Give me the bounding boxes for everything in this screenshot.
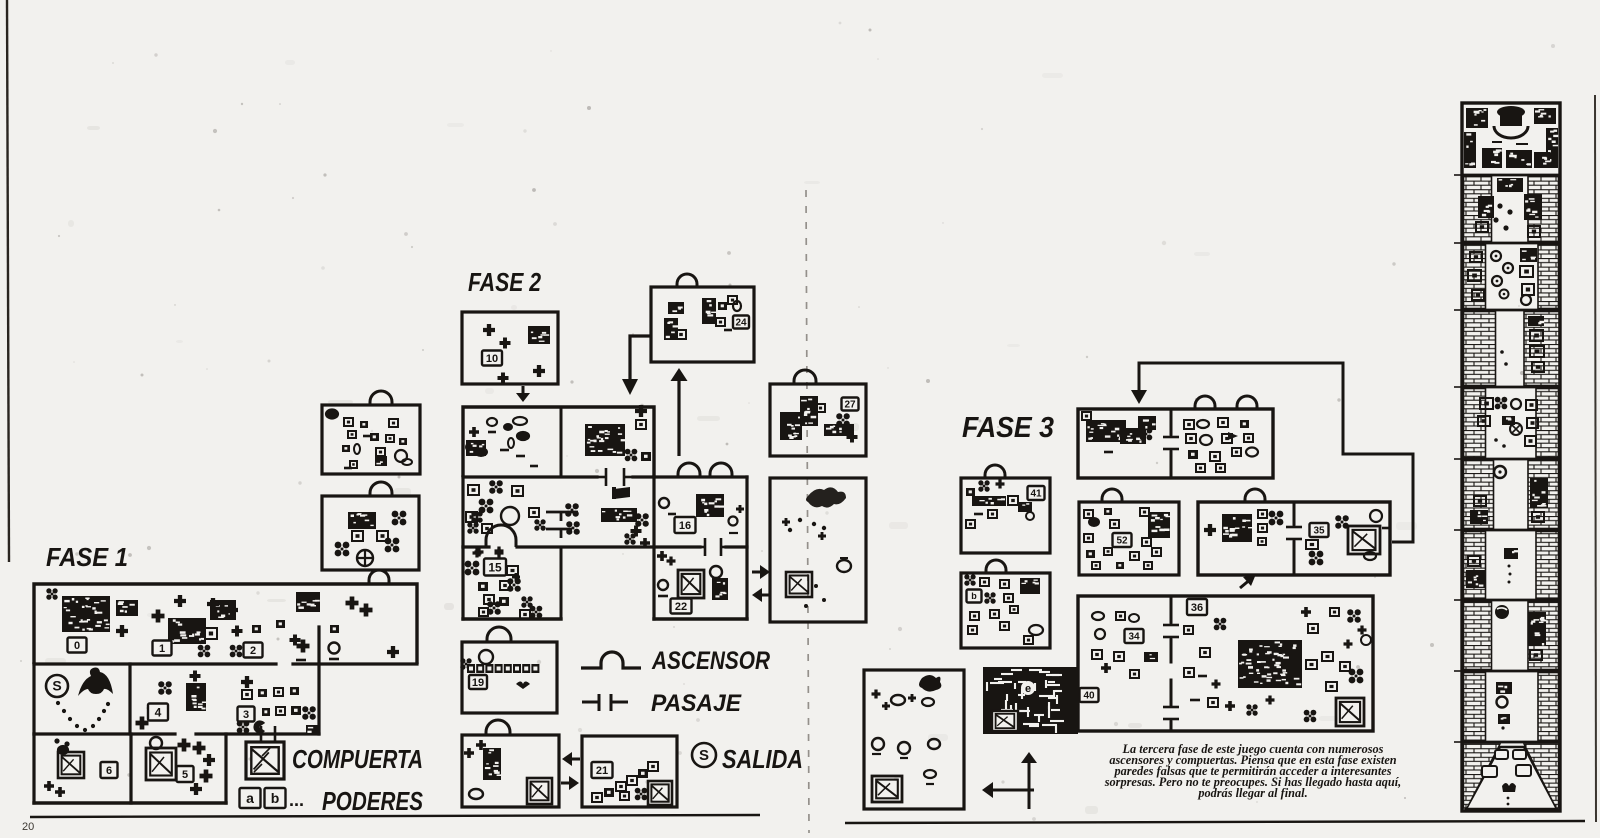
svg-text:22: 22 [675,601,687,613]
fase3 room40 label [1080,688,1099,702]
svg-text:podrás llegar al final.: podrás llegar al final. [1197,786,1307,800]
fase3 arrow up [1021,752,1037,809]
fase2 room16-22 passage marks [697,538,729,556]
fase3 room36 label [1187,599,1207,615]
fase1 row2 middle icons [158,681,172,695]
legend box a [240,788,261,808]
fase3 room 52 [1079,502,1179,575]
fase3 bottom-left room [864,670,964,809]
fase2 room22 icons [657,551,667,561]
legend compuerta icon [246,742,284,779]
tower floor10 road boxes [1495,750,1508,759]
svg-text:FASE 3: FASE 3 [962,412,1054,444]
tower floor6 bricks [1464,461,1494,529]
fase3 routing wire [1139,363,1413,542]
svg-text:a: a [246,790,254,806]
fase2 bottom band outline [461,547,464,619]
fase2 tall right room [770,478,866,622]
fase2 arrow down from room10 [516,386,530,402]
svg-text:16: 16 [679,520,691,532]
svg-text:COMPUERTA: COMPUERTA [292,744,423,774]
fase3 bottom-left icons [919,675,941,692]
svg-text:27: 27 [844,400,856,411]
fase1 room0 cluster [62,596,110,632]
legend ascensor symbol [581,652,641,668]
svg-text:21: 21 [596,765,608,777]
fase3 room36 divider with passages [1170,596,1173,622]
fase2 room16 top wall and arches [654,475,747,478]
fase3 room40 compuerta [991,710,1019,732]
fase2 top band right icons [585,424,626,456]
fase1 top room middle icons [152,610,165,623]
fase3 room36 right icons [1184,626,1193,634]
fase2 arrows to right room [752,565,770,579]
fase2 arrows between 21 rooms [562,752,580,766]
svg-text:e: e [1025,683,1031,695]
fase1 interior wall x319 [317,627,320,734]
fase1 row2 right icon rows [241,676,253,688]
tower floor4 bricks [1464,312,1496,386]
fase1 room0 label 0 [68,638,87,653]
svg-text:34: 34 [1128,632,1140,643]
svg-text:2: 2 [250,645,256,657]
svg-text:20: 20 [22,821,34,833]
fase2 room21R icons [592,762,613,778]
tower floor2 icons [1497,178,1523,192]
fase1 top room outline [34,584,417,664]
tower floor7 icons [1468,556,1480,566]
fase2 inner arch room [486,525,516,547]
fase3 top room left icons [1086,420,1126,442]
fase2 middle band bottom wall [463,545,489,548]
fase2 room15 icons [484,559,506,576]
tower floor10 side bricks [1464,744,1501,808]
fase1 ascensor arch on top room [369,570,389,583]
fase2 tall room icons [806,487,846,507]
fase3 room 41 [961,478,1050,553]
fase1 room5 icons [150,737,162,749]
fase3 top room arches [1195,396,1215,409]
fase1 room6 icons [54,738,69,746]
svg-text:S: S [52,678,61,694]
fase2 middle band passage marks [546,512,578,538]
fase3 big room 36 [1078,596,1373,731]
svg-text:6: 6 [106,765,112,777]
tower floor6 icons [1494,466,1506,478]
tower floor2 bricks [1464,177,1492,242]
fase2 top band divider [560,407,563,477]
tower floor10 perspective road [1466,747,1557,809]
fase3 arrow up at room35 bottom [1240,578,1252,588]
svg-text:0: 0 [74,640,80,652]
fase3 power room icons [964,574,975,585]
svg-text:36: 36 [1191,602,1203,614]
fase3 wire arrowhead into top room [1131,390,1147,404]
fase2 left column room A [322,405,420,474]
svg-text:15: 15 [488,560,502,574]
fase3 room35 right icons [1310,523,1329,537]
fase2 room 19 [462,642,557,713]
svg-text:FASE 2: FASE 2 [468,267,541,297]
legend pasaje symbol [582,694,628,711]
fase2 middle left room icons [468,485,479,495]
svg-text:5: 5 [182,769,188,781]
tower floor10 crown [1502,783,1516,792]
fase3 top double room [1078,409,1273,478]
fase1 top room bottom wall with door gap [34,662,276,665]
tower floor lines [1462,174,1560,177]
fase1 row2 left wall [32,664,35,734]
page left border line [7,0,9,562]
tower floor3 bricks [1464,245,1486,309]
tower floor4 icons [1530,330,1543,341]
fase2 top band left icons [466,443,474,451]
svg-text:b: b [971,591,977,601]
svg-text:35: 35 [1313,526,1325,537]
fase2 room 21 right [582,736,677,807]
fase3 room40 circle e [1021,681,1035,695]
fase3 arrow left [982,782,1034,798]
fase2 room16/22 right wall [652,477,655,619]
fase1 row2 passage marks [253,726,283,742]
tower floor5 bricks [1464,389,1486,458]
svg-text:SALIDA: SALIDA [722,744,803,774]
fase3 power room [961,573,1050,648]
svg-text:10: 10 [486,353,498,365]
tower floor9 bricks [1464,673,1486,741]
bottom rule left [30,815,760,817]
bottom rule right [845,821,1585,823]
fase3 top room right icons [1184,420,1194,429]
fase2 top band bottom wall with passages [463,475,597,478]
fase2 room19 icons [479,650,493,664]
svg-text:1: 1 [159,643,165,655]
tower floor7 bricks [1464,532,1486,599]
fase1 row3 outline [32,734,35,803]
svg-text:40: 40 [1083,691,1095,702]
fase2 central block outline [463,407,654,477]
fase2 room16 icons [659,498,669,508]
tower floor9 icons [1496,682,1512,694]
tower floor3 eyes [1491,251,1501,261]
fase3 room 35 block [1198,502,1390,575]
svg-text:...: ... [289,790,304,810]
fase2 room27 icons [780,412,802,440]
fase3 room36 right big maze [1238,640,1302,688]
fase2 arrow L into room24 [630,336,651,379]
tower floor3 icon strips [1470,252,1482,262]
fase1 row2 bottom wall with door gap [34,732,175,735]
svg-text:24: 24 [735,318,747,329]
tower floor5 icons [1480,398,1493,409]
fase2 room 10 [462,312,558,384]
fase3 room35 divider with passages [1293,502,1296,524]
fase3 room35 left icons [1204,524,1216,536]
fase1 room0 small cluster [116,600,138,616]
tower side ticks [1454,174,1462,176]
fase2 room 21 left [462,735,559,807]
fase3 room52 icons [1084,510,1093,518]
svg-text:41: 41 [1030,489,1042,500]
svg-text:3: 3 [243,709,249,721]
tower floor8 bricks [1464,602,1492,670]
fase1 top room right icons [296,592,320,612]
fase1 room0 cross [116,625,128,637]
fase3 black maze room 40 [983,667,1078,734]
svg-text:FASE 1: FASE 1 [46,542,128,572]
legend salida S [692,743,716,767]
fase2 room10 icons [483,324,495,336]
fase2 roomB icons [348,512,376,529]
fase2 middle center icons [565,503,579,517]
fase2 left column room B [322,496,419,570]
fase2 room 24 top [651,287,754,362]
svg-text:b: b [271,790,280,806]
page fold dashed line [806,190,809,833]
svg-text:PASAJE: PASAJE [651,690,742,717]
svg-text:19: 19 [472,677,484,689]
fase2 room 27 [770,384,866,456]
fase1 row2 divider x130 [128,664,131,734]
fase2 room21L icons [464,748,474,758]
fase3 top room divider with passages [1170,409,1173,434]
tower floor1 machine room [1466,108,1488,128]
fase2 arrow up to room24 [671,368,688,456]
page right border line [1595,95,1596,822]
legend compuerta hatch [254,748,270,772]
svg-text:52: 52 [1116,536,1128,547]
svg-text:S: S [699,747,709,764]
fase1 spider icon [78,668,113,697]
svg-text:4: 4 [155,705,162,719]
fase1 room0 x icon [46,588,57,599]
legend box b [265,788,286,808]
fase2 room24 icons [668,302,684,314]
fase1 dotted trail [56,701,110,732]
svg-text:ASCENSOR: ASCENSOR [651,647,770,675]
fase3 room36 left icons [1092,612,1104,620]
svg-text:PODERES: PODERES [322,786,424,816]
fase2 middle band walls [461,477,464,547]
fase1 room S circle [46,675,68,697]
tower floor8 icons [1495,605,1509,619]
fase2 roomA icons [326,410,338,419]
fase3 room41 icons [966,488,975,496]
tower outer frame [1462,103,1560,811]
